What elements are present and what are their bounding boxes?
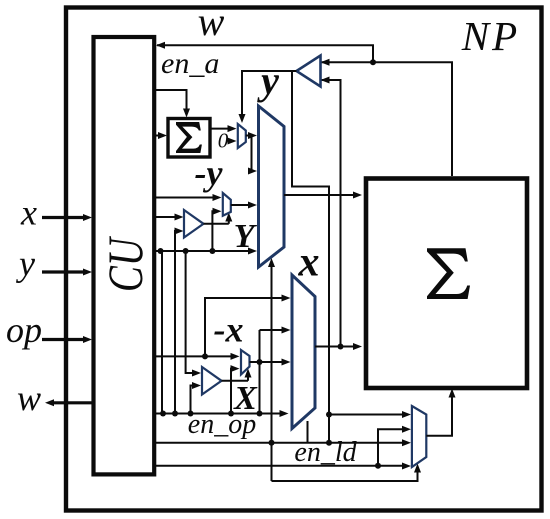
sigma unit U3 bbox=[366, 179, 527, 389]
junction w tap bbox=[370, 59, 376, 65]
wire -y bbox=[156, 194, 222, 201]
svg-text:w: w bbox=[198, 0, 225, 44]
buffer U4 bbox=[297, 56, 321, 87]
junction rail1 b bbox=[172, 411, 178, 417]
wire en_op rail bbox=[156, 410, 289, 417]
input y bbox=[42, 269, 92, 276]
svg-text:Y: Y bbox=[234, 218, 258, 255]
wire mux M0 output bbox=[246, 132, 257, 139]
svg-text:0: 0 bbox=[218, 129, 229, 153]
wire -x bbox=[156, 353, 240, 360]
wire mux Mx select bbox=[245, 369, 252, 381]
wire y rail bbox=[156, 248, 257, 255]
wire mux MX select bbox=[307, 421, 309, 443]
svg-text:-y: -y bbox=[195, 153, 224, 193]
wire mux MX output bbox=[315, 343, 362, 350]
junction rail1 d bbox=[228, 411, 234, 417]
svg-text:en_a: en_a bbox=[161, 47, 219, 80]
junction mux Mx out bbox=[257, 359, 263, 365]
control unit CU bbox=[94, 37, 155, 474]
wire buffer x output bbox=[222, 380, 249, 382]
svg-text:w: w bbox=[17, 378, 41, 418]
wire X mux input3 bbox=[260, 359, 291, 366]
junction y rail 2 bbox=[183, 248, 189, 254]
svg-text:op: op bbox=[6, 310, 42, 350]
wire mux M2 input2 bbox=[378, 426, 411, 466]
wire X mux input2 bbox=[260, 327, 291, 334]
wire feedback branch bbox=[292, 71, 329, 443]
wire mux M2 input1 bbox=[329, 411, 411, 418]
junction select rail a bbox=[269, 440, 275, 446]
wire mux Mx input2 bbox=[231, 365, 240, 413]
svg-text:en_ld: en_ld bbox=[294, 437, 357, 468]
mux M0 bbox=[238, 124, 246, 148]
wire buffer y input1 bbox=[156, 214, 184, 221]
wire mux My input2 bbox=[212, 208, 221, 251]
wire buffer lower input bbox=[321, 77, 341, 347]
wire buffer y output bbox=[204, 223, 229, 225]
svg-text:CU: CU bbox=[97, 236, 153, 292]
wire en_ld rail bbox=[156, 463, 411, 470]
wire mux MY output bbox=[284, 192, 362, 199]
wire mux My select bbox=[225, 213, 232, 224]
wire buffer y input2 bbox=[175, 228, 184, 414]
wire mux Mx output bbox=[250, 361, 260, 363]
mux My bbox=[223, 193, 231, 216]
wire w feedback bbox=[156, 42, 373, 63]
mux MX bbox=[292, 275, 315, 429]
wire select rail bbox=[156, 439, 411, 446]
mux MY bbox=[259, 106, 285, 267]
vertical rail a bbox=[161, 251, 163, 414]
wire constant 0 bbox=[228, 138, 237, 145]
wire mux M2 output bbox=[426, 389, 455, 436]
svg-text:x: x bbox=[20, 193, 37, 233]
junction rail1 e bbox=[257, 411, 263, 417]
wire en_a bbox=[156, 90, 190, 118]
wire register output bbox=[210, 125, 237, 132]
svg-text:x: x bbox=[298, 240, 320, 286]
svg-text:y: y bbox=[16, 244, 35, 284]
input x bbox=[42, 214, 92, 221]
wire mux MY select bbox=[268, 258, 275, 481]
wire buffer x input1 bbox=[186, 251, 201, 377]
junction y rail 1 bbox=[158, 248, 164, 254]
vertical rail b bbox=[259, 330, 261, 414]
svg-text:NP: NP bbox=[461, 13, 520, 59]
svg-text:y: y bbox=[257, 58, 279, 103]
buffer U5 bbox=[184, 210, 204, 238]
output w bbox=[45, 399, 92, 406]
wire mux M2 select bbox=[272, 464, 422, 482]
wire buffer x input2 bbox=[191, 382, 202, 414]
mux Mx bbox=[241, 350, 250, 375]
wire register input bbox=[156, 132, 167, 139]
junction rail1 a bbox=[160, 411, 166, 417]
wire buffer output bbox=[239, 71, 297, 123]
junction y rail 3 bbox=[209, 248, 215, 254]
wire sigma output top bbox=[321, 59, 453, 176]
svg-text:-x: -x bbox=[214, 310, 244, 350]
junction en_ld tap bbox=[375, 463, 381, 469]
junction feedback bottom bbox=[326, 412, 332, 418]
label sigma small bbox=[176, 122, 202, 153]
wire mux M0 branch bbox=[248, 136, 257, 175]
junction select rail b bbox=[326, 440, 332, 446]
mux M2 bbox=[412, 406, 426, 467]
accumulator register U2 bbox=[168, 119, 210, 158]
wire mux My output bbox=[231, 202, 257, 209]
wire X mux input1 bbox=[205, 295, 291, 357]
input op bbox=[42, 336, 92, 343]
buffer U6 bbox=[202, 367, 222, 395]
junction MX out tap bbox=[338, 344, 344, 350]
label sigma big bbox=[427, 248, 470, 299]
junction -x tap bbox=[202, 353, 208, 359]
junction rail1 c bbox=[188, 411, 194, 417]
svg-text:en_op: en_op bbox=[188, 409, 256, 440]
